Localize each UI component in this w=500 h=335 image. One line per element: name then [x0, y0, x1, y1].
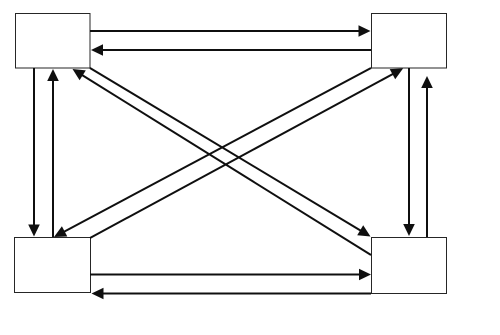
arrow diagonal BL-to-TR — [90, 69, 403, 239]
arrow left down — [28, 68, 40, 237]
arrow left up — [47, 69, 59, 237]
arrow top left-to-right — [90, 25, 371, 37]
arrow bottom right-to-left — [92, 288, 372, 300]
box bottom-right — [372, 238, 447, 294]
arrow bottom left-to-right — [90, 269, 371, 281]
box bottom-left — [15, 238, 91, 293]
arrow right down — [403, 68, 415, 236]
arrow diagonal BR-to-TL — [73, 69, 372, 255]
arrow diagonal TL-to-BR — [90, 68, 371, 237]
arrow right up — [421, 76, 433, 237]
box top-left — [16, 14, 91, 69]
box top-right — [372, 14, 447, 69]
arrow diagonal TR-to-BL — [54, 68, 371, 237]
arrow top right-to-left — [91, 44, 371, 56]
